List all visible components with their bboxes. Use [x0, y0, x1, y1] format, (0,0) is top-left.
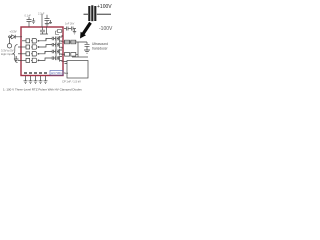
svg-text:transducer: transducer: [92, 47, 108, 51]
MOSFET M4 (low-side N): [57, 56, 62, 62]
logic channel 1: input buffer and level translator: [22, 38, 52, 43]
svg-text:1nF 2kV: 1nF 2kV: [65, 23, 75, 26]
ground pin GND2: [29, 76, 33, 84]
MOSFET M3: [57, 49, 62, 55]
clamp diode D1: [64, 62, 68, 64]
series damping resistors R1 R2 on output: [64, 40, 89, 57]
ground pin GND5: [44, 76, 48, 84]
gate drive capacitor channel 1: [52, 37, 57, 41]
gate drive capacitor channel 4: [52, 56, 57, 60]
MOSFET M2: [57, 42, 62, 48]
svg-text:3.3V to 5V: 3.3V to 5V: [1, 49, 14, 53]
logic channel 3: input buffer and level translator: [18, 51, 52, 56]
svg-text:1: 100 V Three-Level RTZ Pulse: 1: 100 V Three-Level RTZ Pulser With HV …: [3, 88, 82, 92]
internal supply rail wire: [45, 38, 56, 56]
ground on input: [14, 56, 19, 62]
svg-text:+100V: +100V: [97, 4, 112, 10]
annotation arrow pointing to output node: [80, 22, 92, 39]
IC boundary U1 (red outline): [21, 27, 63, 76]
transducer load capacitor CL with ground: [64, 42, 91, 53]
pin name labels along bottom edge: [24, 72, 47, 74]
internal regulator block: [56, 30, 64, 35]
svg-text:Ultrasound: Ultrasound: [92, 42, 108, 46]
output waveform glyph (RTZ pulse train): [84, 5, 112, 21]
capacitor C3 cluster right of IC with ground: [64, 27, 76, 35]
decoupling capacitor C1 with ground: [27, 17, 36, 27]
svg-text:logic inputs: logic inputs: [1, 52, 15, 56]
svg-text:CP 1nF / 1.5 kV: CP 1nF / 1.5 kV: [62, 80, 81, 84]
gate drive capacitor channel 2: [52, 43, 57, 47]
logic channel 2: input buffer and level translator: [18, 45, 52, 50]
svg-text:+3.3V: +3.3V: [10, 30, 17, 34]
ground pin GND1: [24, 76, 28, 84]
svg-text:HV7361: HV7361: [51, 71, 62, 75]
logic channel 4: input buffer and level translator: [18, 58, 52, 63]
MOSFET M1 (high-side P): [57, 35, 62, 42]
ground pin GND4: [39, 76, 43, 84]
connector brace for logic inputs: [13, 45, 18, 63]
part number label (blue): [50, 71, 63, 76]
ground pin GND3: [34, 76, 38, 84]
svg-text:0.1uF: 0.1uF: [25, 15, 32, 18]
svg-text:-100V: -100V: [99, 26, 113, 32]
gate drive capacitor channel 3: [52, 50, 57, 54]
decoupling capacitor C2 with ground: [40, 14, 52, 34]
HV clamp diode network box: [67, 61, 88, 79]
svg-text:2.2uF: 2.2uF: [38, 13, 45, 16]
svg-text:GA: GA: [64, 71, 68, 75]
